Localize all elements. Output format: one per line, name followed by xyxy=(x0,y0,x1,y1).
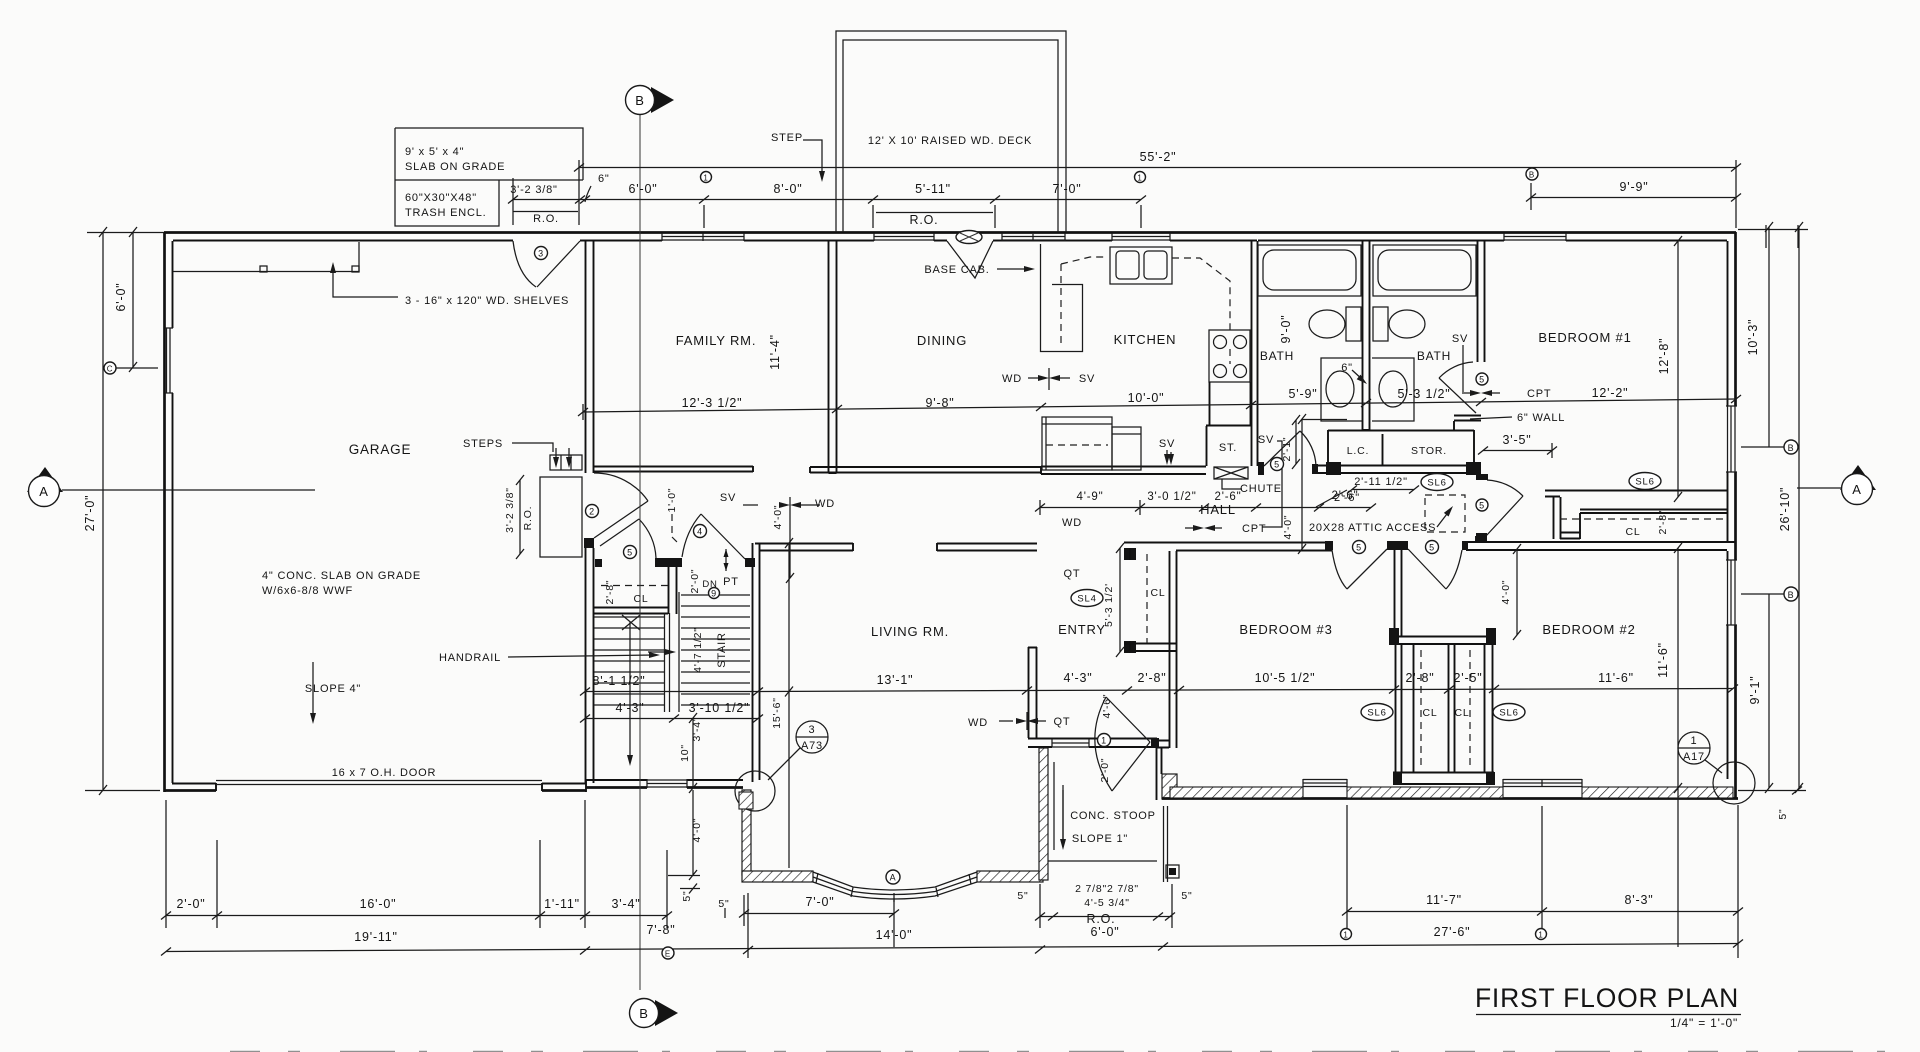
steps garage to house xyxy=(550,455,582,470)
svg-text:BATH: BATH xyxy=(1260,349,1294,363)
dim 4'-3 / 3'-10 1/2 xyxy=(585,718,758,720)
svg-text:26'-10": 26'-10" xyxy=(1778,487,1792,531)
svg-text:3'-5": 3'-5" xyxy=(1503,433,1532,447)
window W2 dining xyxy=(874,233,934,241)
svg-text:2 7/8"2 7/8": 2 7/8"2 7/8" xyxy=(1075,883,1139,895)
svg-text:FIRST FLOOR PLAN: FIRST FLOOR PLAN xyxy=(1475,983,1739,1013)
svg-text:1: 1 xyxy=(1691,735,1698,747)
svg-text:5'-9": 5'-9" xyxy=(1289,387,1318,401)
wall bedroom1 south xyxy=(1545,491,1727,497)
svg-text:8'-3": 8'-3" xyxy=(1625,893,1654,907)
svg-text:ST.: ST. xyxy=(1219,442,1237,454)
door jamb post garage hall xyxy=(584,538,594,548)
dim bedroom3 bottom string xyxy=(1027,689,1733,691)
svg-text:ENTRY: ENTRY xyxy=(1058,622,1106,637)
svg-text:SL4: SL4 xyxy=(1077,594,1096,605)
SV to CPT leader xyxy=(1262,441,1282,527)
dim ticks small bath 6" xyxy=(1302,419,1347,421)
dim 55'-2" line xyxy=(579,167,1736,169)
svg-text:SL6: SL6 xyxy=(1499,708,1518,719)
svg-text:20X28 ATTIC ACCESS: 20X28 ATTIC ACCESS xyxy=(1309,522,1436,534)
svg-text:5: 5 xyxy=(1479,501,1485,511)
wall living/entry divider xyxy=(1028,647,1037,738)
svg-text:5'-3 1/2": 5'-3 1/2" xyxy=(1398,387,1451,401)
svg-text:9: 9 xyxy=(711,589,717,599)
svg-text:WD: WD xyxy=(1062,517,1082,529)
dim entry 5'-3 1/2" xyxy=(1119,548,1121,652)
SV chute arrow xyxy=(1170,452,1172,461)
svg-text:QT: QT xyxy=(1054,716,1071,728)
wall dining/kitchen south xyxy=(810,467,1041,473)
SV bedroom1 leader xyxy=(1462,345,1464,392)
svg-text:4: 4 xyxy=(697,527,703,537)
6" leader top xyxy=(585,186,591,202)
dim right 12'-8" vertical xyxy=(1677,241,1679,497)
door hall to bedroom1 xyxy=(1486,496,1523,536)
svg-text:CPT: CPT xyxy=(1242,523,1266,535)
step leader xyxy=(803,140,822,176)
svg-text:10'-0": 10'-0" xyxy=(1128,391,1165,405)
svg-text:3'-10 1/2": 3'-10 1/2" xyxy=(689,701,750,715)
dim 3'-5" xyxy=(1483,450,1552,452)
svg-text:5: 5 xyxy=(627,548,633,558)
stove xyxy=(1209,330,1250,382)
entry closet walls xyxy=(1124,548,1136,560)
svg-text:8'-1 1/2": 8'-1 1/2" xyxy=(593,674,646,688)
wall left exterior garage xyxy=(163,232,166,792)
svg-text:B: B xyxy=(639,1006,648,1021)
svg-text:3'-2 3/8": 3'-2 3/8" xyxy=(510,184,557,196)
dim 26'-10" right xyxy=(1798,227,1800,788)
wall right exterior xyxy=(1734,232,1737,799)
svg-text:HALL: HALL xyxy=(1200,502,1236,517)
B section line vertical xyxy=(639,114,641,990)
window deck slider xyxy=(1002,233,1065,241)
6 inch wall jog xyxy=(1454,416,1481,431)
conc stoop slope arrow xyxy=(1062,790,1064,846)
SV kitchen arrow xyxy=(1166,450,1168,461)
svg-text:1: 1 xyxy=(703,174,708,183)
svg-text:60"X30"X48": 60"X30"X48" xyxy=(405,192,477,204)
svg-text:3'-2 3/8": 3'-2 3/8" xyxy=(504,487,516,533)
bedroom3/2 door posts xyxy=(1325,541,1333,550)
svg-text:1: 1 xyxy=(1538,931,1543,940)
svg-text:PT: PT xyxy=(723,576,739,588)
svg-text:SV: SV xyxy=(1452,333,1468,345)
svg-text:CL: CL xyxy=(1422,707,1437,719)
svg-text:13'-1": 13'-1" xyxy=(877,673,914,687)
wall top exterior outer line xyxy=(164,231,1736,234)
svg-text:2'-8": 2'-8" xyxy=(1406,671,1435,685)
svg-text:2'-1": 2'-1" xyxy=(1281,437,1293,462)
svg-text:2'-0": 2'-0" xyxy=(177,897,206,911)
svg-text:BEDROOM #1: BEDROOM #1 xyxy=(1538,330,1631,345)
stoop dim string xyxy=(1040,916,1172,918)
wall bedroom2 north xyxy=(1462,542,1735,550)
wall kitchen south / hall north xyxy=(1041,466,1206,474)
wall bath1/bath2 divider xyxy=(1362,241,1370,430)
stoop interior marks xyxy=(1054,762,1168,882)
A section line right xyxy=(1797,487,1841,489)
svg-text:SLOPE 4": SLOPE 4" xyxy=(305,683,361,695)
svg-text:1: 1 xyxy=(1137,174,1142,183)
svg-text:7'-0": 7'-0" xyxy=(806,895,835,909)
svg-text:4'-9": 4'-9" xyxy=(1077,491,1104,503)
dim 9'-9" xyxy=(1531,197,1736,199)
kitchen dashed upper cabinets right xyxy=(1172,258,1230,330)
stoop left wall hatched xyxy=(1039,748,1048,880)
svg-text:A17: A17 xyxy=(1683,751,1705,763)
svg-text:7'-8": 7'-8" xyxy=(647,923,676,937)
bath1 toilet xyxy=(1346,307,1361,341)
dim 2'-1 bath xyxy=(1295,420,1297,464)
dim left 6'-0" xyxy=(132,232,134,367)
svg-text:5": 5" xyxy=(1017,890,1028,902)
svg-text:1'-0": 1'-0" xyxy=(666,488,678,513)
svg-text:R.O.: R.O. xyxy=(1087,912,1116,926)
dim top row line xyxy=(513,199,1141,201)
svg-text:SLAB ON GRADE: SLAB ON GRADE xyxy=(405,161,505,173)
wall closet stem xyxy=(1395,550,1402,636)
svg-text:B: B xyxy=(1788,443,1795,453)
svg-text:12'-3 1/2": 12'-3 1/2" xyxy=(682,396,743,410)
wall family room south xyxy=(593,466,753,472)
svg-text:FAMILY RM.: FAMILY RM. xyxy=(676,333,756,348)
shelves leader xyxy=(333,268,398,297)
svg-text:1/4" = 1'-0": 1/4" = 1'-0" xyxy=(1670,1016,1738,1030)
door bedroom3 double R xyxy=(1408,549,1446,589)
dim 2'-6" leader line small xyxy=(1316,490,1347,507)
svg-text:SV: SV xyxy=(1079,373,1095,385)
svg-text:4'-3": 4'-3" xyxy=(1064,671,1093,685)
svg-text:SLOPE 1": SLOPE 1" xyxy=(1072,833,1128,845)
svg-text:12'-8": 12'-8" xyxy=(1657,338,1671,375)
closets bed3/bed2 xyxy=(1395,637,1492,645)
svg-text:E: E xyxy=(665,950,671,959)
door 2 garage to hall xyxy=(594,473,648,501)
svg-text:1: 1 xyxy=(1101,736,1107,746)
svg-text:3: 3 xyxy=(809,724,816,736)
svg-text:SL6: SL6 xyxy=(1367,708,1386,719)
svg-text:9'-1": 9'-1" xyxy=(1748,676,1762,705)
chute leader xyxy=(1222,479,1242,489)
svg-text:GARAGE: GARAGE xyxy=(349,442,412,457)
stair treads left run xyxy=(594,617,665,705)
svg-text:SV: SV xyxy=(720,492,736,504)
svg-text:SV: SV xyxy=(1159,438,1175,450)
door 3 garage service xyxy=(513,241,536,287)
svg-text:CHUTE: CHUTE xyxy=(1240,483,1282,495)
svg-text:8'-0": 8'-0" xyxy=(774,182,803,196)
door entry front xyxy=(1095,697,1112,791)
bay window right hatched xyxy=(977,871,1043,882)
door bedroom3 double L xyxy=(1347,549,1387,589)
svg-text:27'-0": 27'-0" xyxy=(83,495,97,532)
svg-text:5'-11": 5'-11" xyxy=(915,182,951,196)
svg-text:BASE CAB.: BASE CAB. xyxy=(924,264,989,276)
kitchen sink xyxy=(1110,247,1172,284)
door bath2 to bedroom1 xyxy=(1439,378,1476,413)
stair closet xyxy=(594,608,668,614)
corner circle living sw xyxy=(735,771,775,811)
svg-text:BEDROOM #2: BEDROOM #2 xyxy=(1542,622,1635,637)
detail circle 1/A17 xyxy=(1678,732,1710,764)
wall south stair section xyxy=(586,786,743,789)
svg-text:5: 5 xyxy=(1479,375,1485,385)
svg-text:3'-0 1/2": 3'-0 1/2" xyxy=(1147,491,1196,503)
right bottom ext xyxy=(1738,790,1806,792)
dim right 11'-6" vertical xyxy=(1677,548,1679,947)
svg-text:HANDRAIL: HANDRAIL xyxy=(439,652,501,664)
wall garage bottom xyxy=(164,789,586,792)
dim RO line 5-11 xyxy=(876,212,993,214)
bath2 tub xyxy=(1373,245,1476,296)
laundry chute xyxy=(1214,467,1248,479)
svg-text:9' x 5' x 4": 9' x 5' x 4" xyxy=(405,146,464,158)
svg-text:CL: CL xyxy=(1625,526,1640,538)
svg-text:1'-11": 1'-11" xyxy=(544,897,580,911)
dim RO line left xyxy=(513,211,578,213)
door 5 closet xyxy=(600,519,639,546)
svg-text:2'-0": 2'-0" xyxy=(1099,758,1111,783)
svg-text:5": 5" xyxy=(1181,890,1192,902)
dim 4'-0" bay vertical xyxy=(692,790,694,875)
svg-text:A: A xyxy=(890,873,897,883)
svg-text:7'-0": 7'-0" xyxy=(1053,182,1082,196)
svg-text:A: A xyxy=(39,484,48,499)
svg-text:55'-2": 55'-2" xyxy=(1140,150,1177,164)
svg-text:6'-0": 6'-0" xyxy=(114,283,128,312)
svg-text:5: 5 xyxy=(1429,543,1435,553)
dim family 12'-3 1/2" ext xyxy=(582,404,584,420)
wall south wing exterior hatched xyxy=(1162,797,1738,800)
svg-text:CONC. STOOP: CONC. STOOP xyxy=(1070,810,1156,822)
dim 3'-4" vertical stair xyxy=(692,718,694,788)
svg-text:10'-5 1/2": 10'-5 1/2" xyxy=(1255,671,1316,685)
svg-text:BATH: BATH xyxy=(1417,349,1451,363)
right top ext line xyxy=(1738,225,1808,248)
svg-text:5": 5" xyxy=(718,898,729,910)
svg-text:B: B xyxy=(1788,590,1795,600)
handrail leader xyxy=(508,655,655,657)
svg-text:SV: SV xyxy=(1258,434,1274,446)
section marker A right xyxy=(1840,465,1876,490)
bay dim 7'-0" xyxy=(744,913,894,915)
dim left 27'-0" xyxy=(102,232,104,790)
svg-text:QT: QT xyxy=(1064,568,1081,580)
svg-text:3'-4": 3'-4" xyxy=(691,717,703,742)
PT arrow xyxy=(725,549,727,571)
dim 8'-1 1/2" xyxy=(585,691,758,693)
wall hall south / bedroom3 north xyxy=(1124,543,1332,551)
svg-text:11'-4": 11'-4" xyxy=(768,334,782,370)
svg-text:2'-6": 2'-6" xyxy=(1332,490,1359,502)
window kitchen sink xyxy=(1112,233,1170,241)
svg-text:2'-8": 2'-8" xyxy=(1138,671,1167,685)
base cab arrow xyxy=(997,268,1030,270)
section marker B bottom xyxy=(655,1000,678,1026)
svg-text:9'-8": 9'-8" xyxy=(926,396,955,410)
svg-text:6'-0": 6'-0" xyxy=(1091,925,1120,939)
garage slope arrow xyxy=(312,662,314,720)
svg-text:11'-7": 11'-7" xyxy=(1426,893,1462,907)
window bedroom3 south xyxy=(1303,779,1347,787)
svg-text:5'-3 1/2': 5'-3 1/2' xyxy=(1103,583,1115,627)
svg-text:WD: WD xyxy=(1002,373,1022,385)
wall top exterior inner line segments xyxy=(173,240,1727,242)
window bedroom1 top xyxy=(1504,233,1566,241)
A section line left xyxy=(62,489,315,491)
dim 10'-3" right xyxy=(1768,227,1770,447)
stoop right wall xyxy=(1157,748,1162,800)
svg-text:2'-6": 2'-6" xyxy=(1215,491,1242,503)
svg-text:WD: WD xyxy=(968,717,988,729)
svg-text:16'-0": 16'-0" xyxy=(360,897,397,911)
WD/QT entry arrows xyxy=(999,720,1013,722)
svg-text:4'-0": 4'-0" xyxy=(772,505,784,530)
stair direction arrows xyxy=(622,615,640,630)
svg-text:4" CONC. SLAB ON GRADE: 4" CONC. SLAB ON GRADE xyxy=(262,570,421,582)
svg-text:16 x 7 O.H. DOOR: 16 x 7 O.H. DOOR xyxy=(332,767,437,779)
svg-text:L.C.: L.C. xyxy=(1347,445,1369,457)
dim 13'-1" / 4'-3" living xyxy=(758,691,1027,692)
deck xyxy=(836,31,1066,232)
kitchen low cabinet xyxy=(1042,417,1112,470)
slab on grade box xyxy=(395,128,583,226)
svg-text:2'-8": 2'-8" xyxy=(604,580,616,605)
svg-text:2: 2 xyxy=(589,507,595,517)
svg-text:A73: A73 xyxy=(801,740,823,752)
grid bubbles top xyxy=(701,172,712,183)
SL ovals xyxy=(1071,473,1661,721)
wall stair hall doors posts xyxy=(595,559,602,567)
svg-text:2'-8": 2'-8" xyxy=(1657,510,1669,535)
svg-text:B: B xyxy=(1529,171,1535,180)
window W1 family room xyxy=(662,233,744,241)
svg-text:1: 1 xyxy=(1343,931,1348,940)
svg-text:11'-6": 11'-6" xyxy=(1656,642,1670,678)
SV/WD family arrows xyxy=(743,504,758,506)
svg-text:3'-4": 3'-4" xyxy=(612,897,641,911)
section marker A left xyxy=(27,467,63,492)
window bedroom2 south xyxy=(1503,779,1582,787)
dim 11'-7 / 8'-3 xyxy=(1347,911,1738,913)
svg-text:LIVING RM.: LIVING RM. xyxy=(871,624,949,639)
svg-text:12'-2": 12'-2" xyxy=(1592,386,1629,400)
6" bath leader xyxy=(1352,370,1364,381)
bay window left wall hatched xyxy=(742,790,751,875)
svg-text:CL: CL xyxy=(1150,587,1165,599)
svg-text:11'-6": 11'-6" xyxy=(1598,671,1634,685)
bath2 toilet xyxy=(1373,307,1388,341)
attic access xyxy=(1425,495,1465,532)
wall bath1 west xyxy=(1252,241,1258,466)
garage shelves xyxy=(173,242,359,272)
interior long dim line xyxy=(583,399,1736,412)
svg-text:4'-3": 4'-3" xyxy=(616,701,645,715)
svg-text:14'-0": 14'-0" xyxy=(876,928,913,942)
svg-text:5: 5 xyxy=(1274,460,1280,470)
window garage left wall xyxy=(165,328,173,393)
window right wall upper xyxy=(1726,406,1737,472)
svg-text:12' X 10' RAISED WD. DECK: 12' X 10' RAISED WD. DECK xyxy=(868,135,1032,147)
svg-text:R.O.: R.O. xyxy=(533,213,559,225)
corner circle plan se xyxy=(1713,762,1755,804)
svg-text:R.O.: R.O. xyxy=(910,213,939,227)
svg-text:3 - 16" x 120" WD. SHELVES: 3 - 16" x 120" WD. SHELVES xyxy=(405,295,569,307)
kitchen west counter xyxy=(1041,244,1083,352)
garage overhead door xyxy=(216,781,542,785)
wall family/dining divider xyxy=(829,241,837,473)
window living south xyxy=(1052,739,1089,747)
svg-text:9'-9": 9'-9" xyxy=(1620,180,1649,194)
svg-text:6'-0": 6'-0" xyxy=(629,182,658,196)
svg-text:BEDROOM #3: BEDROOM #3 xyxy=(1239,622,1332,637)
svg-text:5: 5 xyxy=(1356,543,1362,553)
pantry ST xyxy=(1206,382,1251,466)
svg-text:10'-3": 10'-3" xyxy=(1746,319,1760,356)
window right wall lower xyxy=(1726,560,1737,625)
keynote circles xyxy=(535,247,1489,885)
wall living room south xyxy=(1028,739,1157,748)
svg-text:2'-5": 2'-5" xyxy=(1454,671,1483,685)
CPT arrows bedroom1 xyxy=(1462,392,1476,394)
wall LC/STOR closets xyxy=(1318,430,1481,473)
wall garage/family divider xyxy=(586,241,594,783)
svg-text:2'-11 1/2": 2'-11 1/2" xyxy=(1354,476,1408,488)
wall stair east / living west xyxy=(753,543,760,782)
svg-text:CL: CL xyxy=(1454,707,1469,719)
svg-text:5": 5" xyxy=(1777,808,1789,819)
door bath1 from hall xyxy=(1264,431,1300,466)
svg-text:27'-6": 27'-6" xyxy=(1434,925,1471,939)
bath1 vanity xyxy=(1321,358,1362,421)
WD/SV kitchen arrows xyxy=(1028,377,1044,379)
CPT hall arrows xyxy=(1185,527,1199,529)
svg-text:4'-0": 4'-0" xyxy=(1282,515,1294,540)
bath2 vanity xyxy=(1372,358,1414,421)
svg-text:C: C xyxy=(107,365,114,374)
svg-text:DINING: DINING xyxy=(917,333,967,348)
svg-text:4'-0": 4'-0" xyxy=(691,818,703,843)
svg-text:2'-0": 2'-0" xyxy=(689,569,701,594)
hall dim string xyxy=(1040,507,1371,509)
svg-text:4'-0": 4'-0" xyxy=(1500,580,1512,605)
wall living room north segments xyxy=(760,543,1037,551)
svg-text:W/6x6-8/8 WWF: W/6x6-8/8 WWF xyxy=(262,585,353,597)
dim 2'-11 1/2" stor xyxy=(1352,489,1414,491)
svg-text:5": 5" xyxy=(681,890,693,901)
bath1 tub xyxy=(1258,245,1361,296)
svg-text:4'-5 3/4": 4'-5 3/4" xyxy=(1084,897,1130,909)
svg-text:WD: WD xyxy=(815,498,835,510)
svg-text:STOR.: STOR. xyxy=(1411,445,1447,457)
svg-text:CL: CL xyxy=(633,593,648,605)
svg-text:TRASH ENCL.: TRASH ENCL. xyxy=(405,207,487,219)
window DX dining corner xyxy=(947,241,993,278)
svg-text:STEP: STEP xyxy=(771,132,803,144)
dim 4'-0" hall vertical xyxy=(1301,419,1303,549)
bottom left dim string xyxy=(166,915,667,917)
svg-text:10": 10" xyxy=(679,744,691,762)
svg-text:4'-7 1/2": 4'-7 1/2" xyxy=(692,627,704,673)
svg-text:B: B xyxy=(635,93,644,108)
svg-text:3: 3 xyxy=(538,249,544,259)
bay 5" ticks xyxy=(724,908,726,918)
svg-text:STAIR: STAIR xyxy=(716,632,728,668)
6" WALL leader xyxy=(1470,417,1512,419)
detail circle 3/A73 xyxy=(796,721,828,753)
